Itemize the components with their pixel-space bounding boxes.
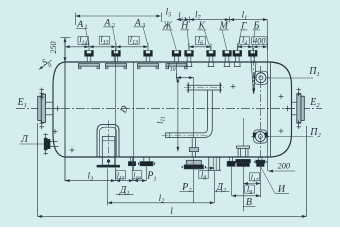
svg-text:200: 200 (278, 162, 291, 171)
svg-text:И: И (277, 184, 286, 195)
svg-text:Л: Л (20, 134, 29, 145)
svg-text:400: 400 (253, 37, 265, 46)
svg-text:250: 250 (49, 41, 58, 53)
svg-text:l: l (170, 207, 173, 217)
svg-text:В: В (246, 197, 252, 208)
